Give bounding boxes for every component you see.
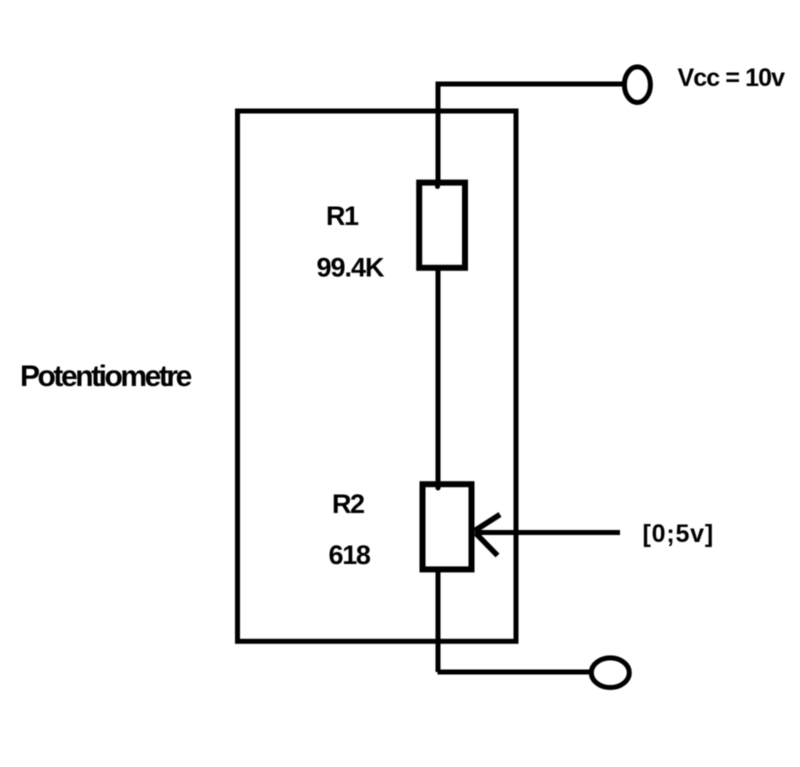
svg-text:[0;5v]: [0;5v] bbox=[643, 520, 715, 548]
svg-text:R2: R2 bbox=[332, 489, 364, 519]
svg-text:Vcc = 10v: Vcc = 10v bbox=[678, 64, 786, 92]
svg-text:R1: R1 bbox=[326, 201, 359, 231]
svg-text:99.4K: 99.4K bbox=[317, 253, 386, 283]
svg-text:Potentiometre: Potentiometre bbox=[20, 360, 192, 393]
svg-text:618: 618 bbox=[329, 540, 371, 570]
